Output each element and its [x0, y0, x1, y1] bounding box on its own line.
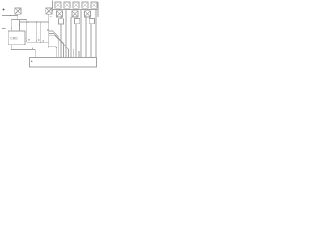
wire arrowhead LO run [28, 21, 30, 22]
text label 21 speck [28, 40, 30, 41]
unit3 mixer crossed box [85, 11, 91, 17]
wire vertical bus 61 [60, 24, 62, 58]
CRO box [8, 31, 25, 45]
wire vertical bus 91 [90, 24, 92, 58]
node dot in combiner [31, 61, 32, 62]
wire comb tooth t1 [73, 49, 75, 58]
unit1 amp box [59, 19, 64, 24]
wire CRO bottom lead [11, 45, 35, 58]
unit2 amp box [75, 19, 80, 24]
node junction dot busA [40, 42, 41, 43]
wire arrowhead v1 [26, 40, 27, 42]
node input terminal dot [3, 9, 5, 11]
wire diagonal elbow e1 [49, 31, 59, 58]
oscillator box O3 top row [73, 2, 79, 8]
unit3 amp box [89, 19, 94, 24]
wire arrowhead v2 [36, 40, 37, 42]
wire diagonal elbow e3 [49, 36, 69, 58]
wire vertical bus 71 [70, 17, 72, 58]
wire right edge vertical [97, 2, 99, 17]
wire comb tooth t2 [78, 51, 80, 58]
wire branch v1 down [26, 20, 28, 42]
wire vertical bus 86 [85, 17, 87, 58]
wire arrowhead LO second [36, 21, 38, 22]
text label 23 speck [38, 40, 40, 41]
wire diagonal elbow e2 [49, 33, 64, 57]
wire unit1 stub [60, 17, 62, 19]
wire bus B y46.8 elbow [49, 47, 57, 58]
wire left mid stub [2, 28, 5, 30]
wire arrow into bus mid [32, 47, 33, 49]
wire arrowhead CRO left [11, 27, 12, 29]
wire branch v2 down [35, 22, 37, 42]
oscillator box O4 top row [82, 2, 88, 8]
wire top bus [53, 8, 98, 10]
wire unit3 stub [89, 17, 91, 19]
svg-text:CRO: CRO [10, 36, 18, 40]
wire input horizontal [2, 15, 18, 17]
wire CRO lead right [19, 20, 21, 31]
oscillator box O5 top row [91, 2, 97, 8]
wire LO corner down v3 [40, 22, 42, 43]
node junction dot M2 lead [48, 46, 49, 47]
wire M2 top right stub [52, 1, 54, 12]
wire vertical bus 66 [65, 9, 67, 57]
wire M1 down lead [17, 14, 19, 19]
unit2 mixer crossed box [72, 11, 78, 17]
wire M2 output vertical [48, 14, 50, 47]
text label f speck [47, 30, 48, 31]
node left mid terminal dot [2, 28, 3, 29]
wire LO horizontal run [20, 21, 49, 23]
mixer M2 crossed box [46, 8, 52, 14]
wire unit2 stub [75, 17, 77, 19]
wire vertical bus 76 [75, 24, 77, 58]
wire split to CRO inputs [11, 19, 26, 21]
text label speck near M2 [50, 16, 51, 18]
unit1 mixer crossed box [57, 11, 63, 17]
wire vertical bus 81 [80, 9, 82, 57]
mixer M1 crossed box [15, 8, 21, 14]
wire arrowhead input [10, 15, 12, 16]
wire arrowhead CRO right [19, 25, 20, 27]
combiner box bottom [30, 58, 97, 67]
text label 32 speck [42, 40, 44, 41]
wire vertical bus 96 [95, 9, 97, 57]
oscillator box O2 top row [64, 2, 70, 8]
oscillator box O1 top row [55, 2, 61, 8]
wire CRO lead left [10, 20, 12, 31]
wire bus A y42.7 [27, 42, 49, 44]
